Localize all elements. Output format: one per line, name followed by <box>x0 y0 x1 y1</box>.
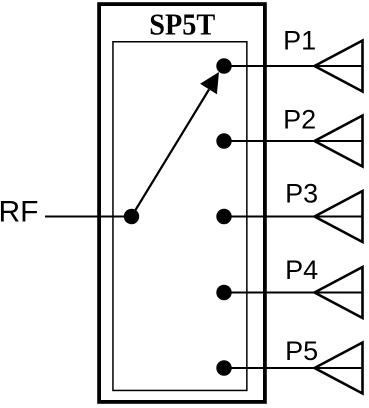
switch arm arrowhead <box>200 72 219 94</box>
wire throw 1 to port P1 <box>224 65 363 67</box>
wire throw 4 to port P4 <box>224 292 363 294</box>
svg-text:P4: P4 <box>285 255 318 285</box>
node throw 1 <box>216 58 231 73</box>
svg-text:RF: RF <box>0 195 39 228</box>
switch arm wire <box>132 90 210 217</box>
svg-text:P3: P3 <box>285 179 318 209</box>
node throw 3 <box>216 209 231 224</box>
port symbol P2 <box>315 116 363 167</box>
wire RF input <box>45 216 132 218</box>
switch body outer box <box>99 4 265 402</box>
node RF pole <box>124 209 139 224</box>
svg-text:P5: P5 <box>285 336 318 366</box>
svg-text:P2: P2 <box>283 104 316 134</box>
svg-text:SP5T: SP5T <box>149 6 215 41</box>
wire throw 2 to port P2 <box>224 140 363 142</box>
port symbol P4 <box>315 267 363 318</box>
wire throw 3 to port P3 <box>224 216 363 218</box>
node throw 2 <box>216 133 231 148</box>
port symbol P1 <box>315 41 363 92</box>
switch body inner box <box>113 42 247 391</box>
port symbol P3 <box>315 191 363 242</box>
node throw 5 <box>216 360 231 375</box>
node throw 4 <box>216 285 231 300</box>
port symbol P5 <box>315 343 363 394</box>
wire throw 5 to port P5 <box>224 367 363 369</box>
svg-text:P1: P1 <box>283 25 316 55</box>
